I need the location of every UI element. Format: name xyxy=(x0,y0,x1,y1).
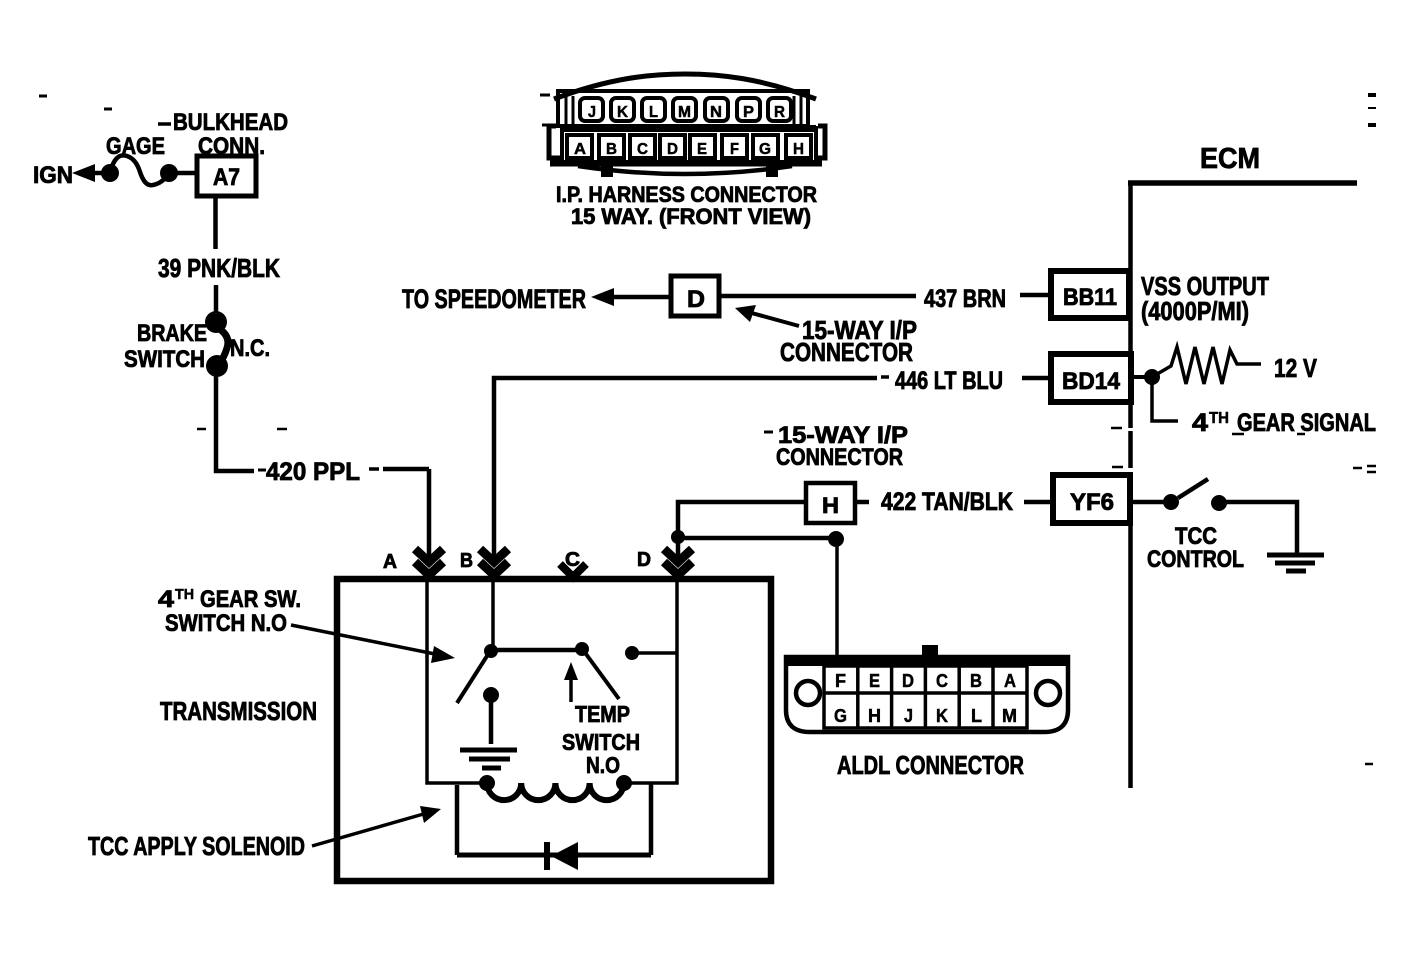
connector A7 box xyxy=(197,156,256,196)
ip conn pin G xyxy=(753,135,778,158)
svg-text:J: J xyxy=(904,706,913,726)
wire to A7 xyxy=(169,171,197,176)
fusible link GAGE squiggle wire xyxy=(110,155,169,185)
label 420 PPL xyxy=(258,469,266,472)
stray dash bottom right xyxy=(1365,763,1373,766)
wire H to pin D xyxy=(678,502,806,557)
svg-text:N.O: N.O xyxy=(586,752,620,778)
ip conn pin D xyxy=(660,135,685,158)
wire coil left down xyxy=(455,785,460,855)
wire YF6 to TCC switch xyxy=(1130,500,1164,505)
svg-text:BD14: BD14 xyxy=(1062,368,1121,395)
ECM vertical line xyxy=(1128,183,1133,788)
svg-text:IGN: IGN xyxy=(33,162,73,189)
svg-text:M: M xyxy=(678,104,691,121)
aldl cell grid xyxy=(824,666,1027,728)
svg-text:D: D xyxy=(667,141,678,158)
temp switch contact dot xyxy=(575,642,589,656)
wire switch to ground xyxy=(1226,502,1297,553)
label BULKHEAD CONN. xyxy=(158,122,171,126)
wire 446 into BD14 xyxy=(1022,376,1051,381)
ip conn pin J xyxy=(580,98,603,121)
svg-text:39 PNK/BLK: 39 PNK/BLK xyxy=(158,253,280,283)
svg-text:A: A xyxy=(1004,671,1016,691)
svg-text:C: C xyxy=(637,141,648,158)
ip conn pin A xyxy=(567,135,592,158)
ip conn mid band xyxy=(560,125,816,132)
svg-text:C: C xyxy=(936,671,948,691)
svg-text:GEAR SW.: GEAR SW. xyxy=(200,586,301,613)
leader arrow TCC apply solenoid xyxy=(312,813,427,846)
ip conn left rib bars xyxy=(566,96,573,125)
svg-text:D: D xyxy=(687,286,705,313)
svg-text:420 PPL: 420 PPL xyxy=(266,458,360,486)
pin C chevron xyxy=(560,564,586,577)
svg-text:422 TAN/BLK: 422 TAN/BLK xyxy=(881,488,1013,516)
wire IGN arrow xyxy=(95,171,111,176)
svg-text:K: K xyxy=(936,706,948,726)
junction dot ALDL branch xyxy=(828,531,844,547)
svg-text:TRANSMISSION: TRANSMISSION xyxy=(160,696,317,726)
svg-text:GEAR SIGNAL: GEAR SIGNAL xyxy=(1237,409,1376,437)
wire 437 into BB11 xyxy=(1020,293,1051,298)
svg-text:ALDL CONNECTOR: ALDL CONNECTOR xyxy=(837,750,1024,780)
ip conn right rib bars xyxy=(794,96,801,125)
brake switch contact bottom xyxy=(206,355,228,377)
connector BD14 box xyxy=(1051,354,1131,402)
svg-text:N: N xyxy=(710,104,722,121)
aldl top band xyxy=(786,657,1068,666)
svg-text:B: B xyxy=(606,141,617,158)
svg-text:BRAKE: BRAKE xyxy=(137,320,207,347)
svg-text:R: R xyxy=(774,104,785,121)
junction dot (GAGE right) xyxy=(160,164,178,182)
svg-text:A7: A7 xyxy=(213,164,240,191)
wire 422 into YF6 xyxy=(1024,500,1053,505)
svg-text:H: H xyxy=(868,706,881,726)
svg-text:L: L xyxy=(649,104,658,121)
ip conn right bracket xyxy=(814,126,825,158)
svg-text:12 V: 12 V xyxy=(1274,353,1318,383)
aldl left eye circle xyxy=(796,681,820,705)
svg-text:B: B xyxy=(970,671,982,691)
ip conn left bracket xyxy=(549,126,560,158)
svg-text:TH: TH xyxy=(175,586,194,603)
connector H box (15-way) xyxy=(806,483,855,523)
svg-text:G: G xyxy=(834,706,847,726)
svg-text:CONNECTOR: CONNECTOR xyxy=(776,444,903,471)
junction dot (GAGE left) xyxy=(101,164,119,182)
svg-text:D: D xyxy=(637,549,651,571)
connector YF6 box xyxy=(1053,475,1130,523)
aldl right eye circle xyxy=(1036,681,1060,705)
wire 437 BRN xyxy=(719,294,916,299)
svg-text:J: J xyxy=(588,104,596,121)
svg-text:D: D xyxy=(902,671,914,691)
ip conn pin F xyxy=(722,135,747,158)
aldl outline xyxy=(786,657,1068,732)
transmission box xyxy=(337,579,771,881)
svg-text:4: 4 xyxy=(158,586,175,613)
solenoid coil windings xyxy=(487,783,624,800)
brake switch blade xyxy=(218,328,228,363)
ip conn tab right xyxy=(766,163,778,177)
ip conn bottom thick line xyxy=(550,161,822,167)
ip conn pin M xyxy=(673,98,696,121)
ip conn pin H xyxy=(786,135,811,158)
diode D1 bar xyxy=(544,842,550,870)
svg-text:H: H xyxy=(822,493,839,518)
stray dashes near ECM mid xyxy=(1111,427,1122,430)
connector BB11 box xyxy=(1051,271,1129,318)
stray dashes top right xyxy=(1368,93,1376,97)
svg-text:TEMP: TEMP xyxy=(575,701,630,727)
leader arrow 4th gear switch xyxy=(291,625,440,655)
connector D box (15-way) xyxy=(671,276,719,316)
svg-text:SWITCH N.O: SWITCH N.O xyxy=(165,610,287,637)
temp switch blade (open) xyxy=(586,654,619,699)
ip conn pin P xyxy=(737,98,760,121)
ip conn pin B xyxy=(599,135,624,158)
svg-text:(4000P/MI): (4000P/MI) xyxy=(1141,296,1249,326)
svg-text:CONTROL: CONTROL xyxy=(1147,546,1244,573)
svg-text:K: K xyxy=(617,104,628,121)
svg-text:F: F xyxy=(835,671,846,691)
wire to ground xyxy=(489,695,494,744)
ip conn top arc xyxy=(554,74,816,99)
4th gear switch blade (open) xyxy=(457,656,487,703)
aldl top tab xyxy=(922,645,938,658)
svg-text:M: M xyxy=(1002,706,1017,726)
svg-text:TH: TH xyxy=(1209,410,1229,427)
solenoid coil terminal dot right xyxy=(616,775,632,791)
diode D1 triangle xyxy=(551,842,578,870)
stray dashes above 420 PPL xyxy=(197,428,287,431)
temp switch output dot xyxy=(625,646,639,660)
svg-text:YF6: YF6 xyxy=(1070,489,1114,516)
svg-text:15 WAY. (FRONT VIEW): 15 WAY. (FRONT VIEW) xyxy=(571,204,811,229)
wire brake switch down to 420 PPL corner xyxy=(216,374,254,471)
svg-text:CONNECTOR: CONNECTOR xyxy=(780,337,913,367)
junction dot at BD14 xyxy=(1144,369,1160,385)
svg-text:A: A xyxy=(574,141,586,158)
brake switch N.C. contact top xyxy=(205,311,227,333)
TCC switch contact right xyxy=(1211,495,1227,511)
wire 420 PPL to pin A xyxy=(369,467,379,471)
svg-text:446 LT BLU: 446 LT BLU xyxy=(895,367,1003,395)
wire 4th gear signal branch xyxy=(1152,377,1178,421)
ground (transmission) xyxy=(460,748,517,753)
svg-text:GAGE: GAGE xyxy=(106,133,165,160)
ip conn lower body xyxy=(562,128,816,162)
svg-text:BB11: BB11 xyxy=(1063,284,1117,311)
svg-text:C: C xyxy=(565,549,580,571)
wire to temp switch xyxy=(491,648,582,653)
svg-text:N.C.: N.C. xyxy=(230,335,270,362)
temp switch pointer arrow xyxy=(569,678,573,702)
ip conn bottom arc xyxy=(578,166,792,174)
ip conn pin N xyxy=(705,98,728,121)
svg-text:BULKHEAD: BULKHEAD xyxy=(173,109,288,136)
svg-text:H: H xyxy=(793,141,804,158)
stray dash top-left 2 xyxy=(104,108,112,111)
solenoid coil terminal dot left xyxy=(479,775,495,791)
ip conn tab left xyxy=(601,163,613,177)
ALDL connector drawing xyxy=(786,645,1068,732)
wire coil right down xyxy=(649,783,654,855)
svg-text:B: B xyxy=(460,550,473,572)
svg-text:G: G xyxy=(759,141,771,158)
ip conn pin E xyxy=(690,135,715,158)
pin B chevron xyxy=(480,549,508,575)
wire 446 LT BLU horizontal + down to pin B xyxy=(494,378,877,557)
stray dashes left of ip conn xyxy=(540,95,550,125)
svg-text:E: E xyxy=(869,671,880,691)
wire BD14 to dot xyxy=(1131,375,1152,379)
resistor R (pull-up to 12V) xyxy=(1152,347,1261,384)
ip conn pin K xyxy=(611,98,634,121)
TCC switch blade xyxy=(1178,479,1208,498)
svg-text:ECM: ECM xyxy=(1200,143,1260,175)
ground contact dot xyxy=(483,687,499,703)
svg-text:437 BRN: 437 BRN xyxy=(924,285,1006,313)
svg-text:SWITCH: SWITCH xyxy=(124,346,205,373)
junction dot at D branch xyxy=(671,530,685,544)
wire down to ALDL xyxy=(835,539,839,657)
svg-text:P: P xyxy=(743,104,754,121)
ip conn pin R xyxy=(768,98,791,121)
inner compartment lines xyxy=(427,582,677,783)
4th gear switch common dot xyxy=(484,644,498,658)
svg-text:A: A xyxy=(383,551,397,573)
svg-text:E: E xyxy=(697,141,707,158)
svg-text:4: 4 xyxy=(1192,409,1208,437)
pin A chevron xyxy=(415,549,443,575)
wire speedometer arrow xyxy=(591,288,614,306)
svg-text:TCC APPLY SOLENOID: TCC APPLY SOLENOID xyxy=(88,831,305,861)
ip conn pin L xyxy=(642,98,665,121)
wire branch to ALDL xyxy=(678,536,836,541)
wire diode bottom xyxy=(457,853,651,858)
ECM top line xyxy=(1128,180,1357,186)
ip conn upper body xyxy=(558,91,808,126)
wire pin B down to switch xyxy=(491,576,495,645)
svg-text:F: F xyxy=(730,141,739,158)
ip conn pin C xyxy=(630,135,655,158)
pin D chevron xyxy=(664,549,692,575)
stray dash top-left 1 xyxy=(39,95,47,98)
TCC switch contact left xyxy=(1163,494,1179,510)
wire temp switch to inner wall xyxy=(638,651,677,655)
label 15-WAY I/P CONNECTOR (lower) xyxy=(764,431,773,434)
wire to brake switch xyxy=(214,285,219,313)
svg-text:TO SPEEDOMETER: TO SPEEDOMETER xyxy=(402,284,586,314)
wire H right dash xyxy=(855,500,869,505)
wire A7 down (above label) xyxy=(213,196,218,249)
ground (TCC) xyxy=(1267,553,1324,558)
svg-text:L: L xyxy=(971,706,982,726)
I.P. harness connector drawing xyxy=(549,74,825,177)
leader arrow to D box xyxy=(748,312,799,326)
